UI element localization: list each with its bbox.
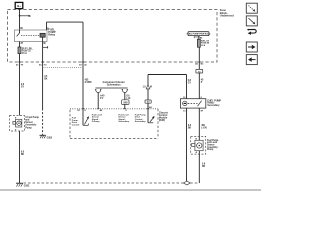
left cluster wire <box>97 93 99 109</box>
wire label 0.8 BK left ground <box>21 152 25 157</box>
relay switch blade <box>17 33 20 36</box>
svg-text:1C: 1C <box>183 110 186 112</box>
svg-text:Control: Control <box>72 123 80 126</box>
fuel pump secondary relay box <box>180 99 205 108</box>
wire label 40 P <box>201 78 204 84</box>
svg-text:GY: GY <box>188 83 192 85</box>
fuse block underhood dashed box <box>8 10 218 63</box>
svg-text:Relay: Relay <box>48 33 55 37</box>
wire label 0.8 GY <box>188 80 192 85</box>
relay pin labels <box>20 28 49 45</box>
svg-text:B+: B+ <box>17 4 21 8</box>
border pin labels <box>39 63 47 66</box>
label: FUEL PUMP Relay Secondary <box>207 99 221 107</box>
wire label 400 L-GN <box>201 124 207 130</box>
toolbar icon: back <box>246 55 257 65</box>
wire: fuse block right feed down <box>198 47 200 99</box>
svg-text:BK: BK <box>188 127 192 129</box>
svg-text:BK: BK <box>44 79 48 81</box>
svg-text:Pump: Pump <box>207 149 214 151</box>
right cluster wire <box>124 93 126 109</box>
label: Chassis Control Module <box>159 112 169 122</box>
module dashed right border <box>157 109 159 139</box>
svg-text:Secondary: Secondary <box>118 121 130 123</box>
chassis control module dotted top border <box>70 108 158 110</box>
pin labels X connector <box>15 118 17 132</box>
module internal function labels <box>72 118 80 127</box>
connector dotted tie line <box>43 67 83 69</box>
fuse FUEL PUMP 15A <box>18 47 21 54</box>
svg-text:Schematics: Schematics <box>107 83 122 87</box>
wire: module driver control up and right to pump relay <box>147 75 149 109</box>
svg-text:BK: BK <box>21 154 25 156</box>
svg-text:G303: G303 <box>47 137 53 139</box>
svg-text:Secondary: Secondary <box>135 121 147 123</box>
coil stub tick <box>43 46 48 48</box>
wire: relay2 left output to splice diamond <box>186 108 188 181</box>
connector body: fuel pump <box>195 140 203 150</box>
fuel pump assembly connector dashed box (left) <box>10 116 25 132</box>
battery B+ box <box>15 2 23 8</box>
inline connector box on driver wire <box>145 100 151 103</box>
svg-text:Secondary: Secondary <box>207 104 220 107</box>
module dashed bottom border <box>70 138 158 140</box>
wire end inside module with arrow <box>82 109 84 126</box>
bracket hook right <box>122 90 127 93</box>
wire: connector to ground <box>19 131 21 183</box>
border crossing ticks <box>18 62 200 109</box>
label: X Fuel Pump and Sensor Assembly <box>25 117 39 129</box>
relay K2 contact dashed link <box>188 102 198 104</box>
module pin labels <box>77 110 86 112</box>
svg-text:GY/BK: GY/BK <box>85 82 92 84</box>
svg-text:15 A: 15 A <box>22 52 27 55</box>
toolbar icon: next <box>246 42 257 52</box>
wire label 0.8 BK <box>188 125 192 130</box>
svg-text:15 A: 15 A <box>201 44 206 47</box>
relay coil <box>40 33 45 37</box>
svg-text:FUEL PUMP PWR Relay: FUEL PUMP PWR Relay <box>187 34 212 36</box>
svg-text:Assembly -: Assembly - <box>25 124 37 127</box>
instrument cluster bracket <box>103 80 125 87</box>
fuse: fuel pump secondary <box>197 39 200 47</box>
svg-text:L-GN: L-GN <box>201 127 207 129</box>
svg-text:M: M <box>150 86 152 88</box>
connector body: X fuel pump <box>16 119 22 127</box>
page-reference arrow stub <box>20 15 30 17</box>
wire: relay coil 85 down <box>42 37 44 108</box>
svg-text:Pump: Pump <box>25 127 32 129</box>
wire label 0.8 GY <box>21 84 25 89</box>
relay K2 switch blade <box>198 101 202 107</box>
connector tick <box>194 36 200 38</box>
ground G302 <box>16 182 23 184</box>
border pin labels <box>79 63 87 66</box>
wire label I16 L.M <box>126 96 130 101</box>
splice diamond <box>184 181 191 185</box>
wire label 0.5 BK <box>44 76 48 81</box>
relay K2 pin labels <box>183 97 204 112</box>
inline connector box X48 <box>122 100 129 105</box>
label: FUEL PUMP fuse <box>22 47 34 55</box>
pin labels A6 B3 <box>195 63 204 66</box>
svg-text:Underhood: Underhood <box>220 13 234 17</box>
svg-text:BK: BK <box>202 166 206 168</box>
label: FUEL PUMP Relay <box>48 27 56 36</box>
bracket hook left <box>96 90 101 93</box>
relay contact dashed link <box>21 35 40 37</box>
ground G303 <box>40 134 46 136</box>
inline connector box X125 <box>196 69 203 73</box>
svg-text:X48: X48 <box>123 102 128 105</box>
svg-text:Primary: Primary <box>92 121 101 123</box>
wire: B+ down to relay 30 <box>19 9 21 30</box>
label: Fuel Pump and Level Sensor Assembly Pump <box>207 140 219 151</box>
wire: fuse down through border to pump connector <box>19 54 21 116</box>
wire label I+40 P <box>100 95 105 101</box>
wire: pump to ground line <box>198 154 200 183</box>
relay pin 30 stub <box>19 30 21 33</box>
wire end inside module with arrow <box>147 109 149 123</box>
toolbar icon: curly jump arrow <box>249 29 257 33</box>
direction arrow on wire <box>146 85 150 89</box>
wire: relay 87 to fuse <box>19 42 21 48</box>
relay FUEL PUMP Relay box <box>15 30 48 42</box>
dashed portion to ground <box>42 109 44 136</box>
pin labels pump connector <box>195 139 197 155</box>
svg-text:(K38): (K38) <box>159 119 165 122</box>
fuel pump assembly dashed box <box>191 136 206 154</box>
svg-text:GY: GY <box>21 86 25 88</box>
relay K2 coil <box>183 101 187 105</box>
bottom window border line <box>0 189 261 191</box>
wire label 0.8 BK pump ground <box>202 164 206 169</box>
ground distribution dashed line <box>24 182 184 184</box>
svg-text:G302: G302 <box>24 185 30 187</box>
toolbar icon: zoom out <box>246 3 257 13</box>
wire: relay 86 top feed <box>46 22 48 30</box>
wire: relay2 right output to pump <box>198 108 200 136</box>
tag box: fuel pump power relay reference <box>188 32 209 36</box>
toolbar icon: zoom in <box>246 16 257 26</box>
border pin labels <box>16 63 24 66</box>
label: Fuse Block - Underhood <box>220 8 234 17</box>
module dashed left border <box>69 110 71 139</box>
wire label 435 GY/BK <box>85 79 92 85</box>
